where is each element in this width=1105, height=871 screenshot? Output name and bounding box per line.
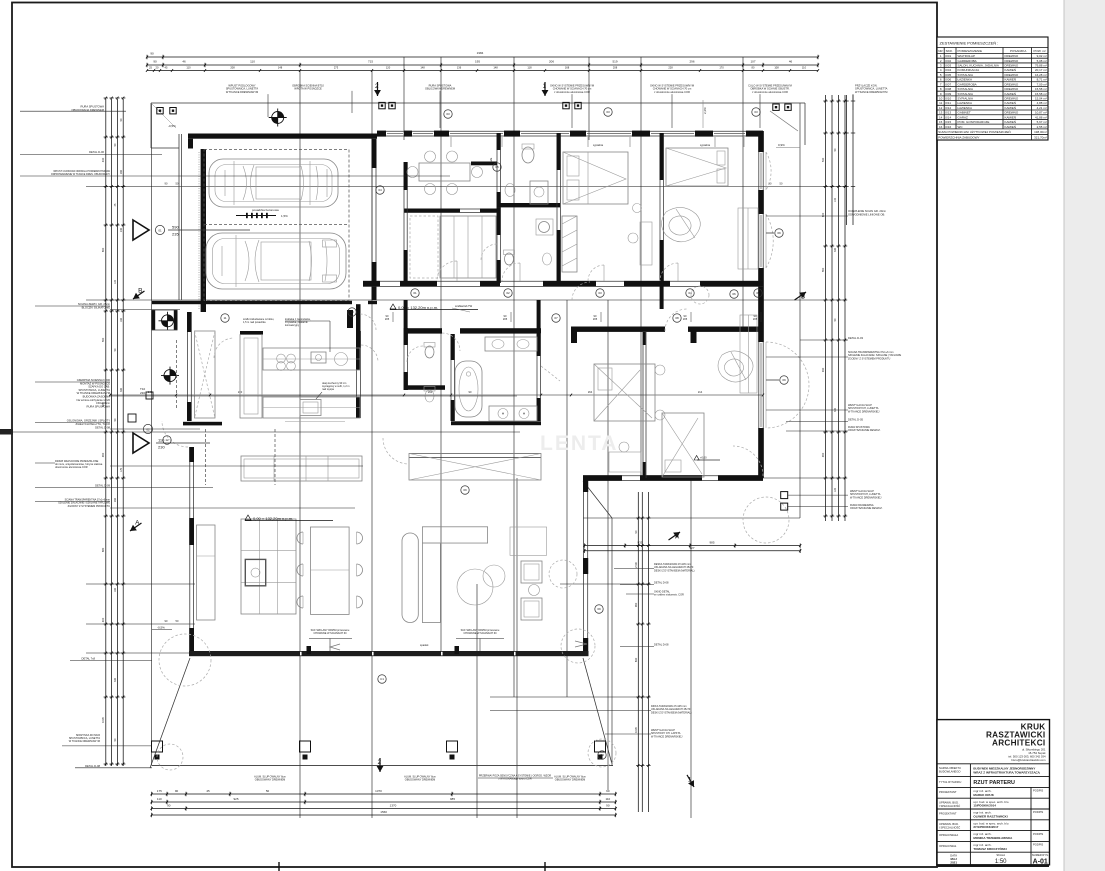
- svg-text:posadzka betonowa: posadzka betonowa: [252, 208, 279, 212]
- svg-text:SUMA POWIERZCHNI UŻYTKOWEJ POM: SUMA POWIERZCHNI UŻYTKOWEJ POMIESZCZEŃ: [938, 129, 1011, 134]
- svg-text:WROTA W POSADZCE: WROTA W POSADZCE: [294, 87, 322, 91]
- svg-text:41,88 m²: 41,88 m²: [1035, 115, 1047, 119]
- svg-text:9,02 m²: 9,02 m²: [1037, 54, 1047, 58]
- upper bathroom1 fixtures: [522, 147, 534, 163]
- svg-text:sypialnia: sypialnia: [700, 143, 711, 147]
- svg-text:0/02: 0/02: [945, 59, 951, 63]
- main bath east wall: [536, 334, 538, 421]
- svg-text:SYPIALNIA: SYPIALNIA: [958, 96, 974, 100]
- main bath tub: [455, 361, 482, 417]
- svg-text:170: 170: [719, 65, 724, 69]
- svg-text:GARAŻ: GARAŻ: [958, 114, 969, 119]
- section arrow 1 top: [542, 82, 549, 96]
- building walls: [151, 100, 805, 656]
- svg-text:DESKI Z DYSTANSEM (MATERIAL): DESKI Z DYSTANSEM (MATERIAL): [654, 569, 695, 572]
- svg-text:POWIERZCHNIA ZABUDOWY: POWIERZCHNIA ZABUDOWY: [938, 136, 979, 140]
- svg-text:45: 45: [206, 789, 210, 793]
- svg-text:4,88 m²: 4,88 m²: [1037, 101, 1047, 105]
- garage south wall: [152, 301, 352, 304]
- WC column toilets: [425, 346, 434, 358]
- svg-text:1370: 1370: [375, 789, 382, 793]
- svg-text:DETAL D-06: DETAL D-06: [89, 150, 104, 154]
- svg-text:8,71 m²: 8,71 m²: [1037, 78, 1047, 82]
- bath bottom wall: [497, 203, 560, 205]
- svg-text:15,58 m²: 15,58 m²: [1035, 92, 1047, 96]
- svg-text:2,2%: 2,2%: [703, 107, 707, 114]
- furniture: [150, 137, 809, 770]
- svg-text:927: 927: [689, 546, 694, 550]
- svg-text:ARCHITEKCI: ARCHITEKCI: [992, 739, 1046, 748]
- svg-text:04: 04: [378, 188, 382, 192]
- svg-text:108: 108: [774, 65, 779, 69]
- garage west wall: [178, 134, 180, 300]
- svg-text:POM. GOSPODARCZE: POM. GOSPODARCZE: [958, 120, 990, 124]
- svg-text:TOMASZ KROCZYŃSKI: TOMASZ KROCZYŃSKI: [973, 846, 1006, 851]
- svg-text:205: 205: [753, 317, 758, 321]
- extra dashed circles SE: [743, 497, 789, 543]
- svg-text:4,21 m²: 4,21 m²: [1037, 106, 1047, 110]
- svg-text:W TKANCE DREWNIANYM: W TKANCE DREWNIANYM: [855, 90, 887, 94]
- svg-text:A: A: [675, 534, 680, 541]
- top dimension chain line 3: [147, 70, 818, 72]
- svg-text:460: 460: [821, 452, 825, 457]
- svg-text:118: 118: [527, 65, 532, 69]
- svg-text:14: 14: [939, 115, 943, 119]
- svg-text:0/10: 0/10: [945, 96, 951, 100]
- svg-text:13: 13: [939, 111, 943, 115]
- svg-text:15/PDOKK/2014: 15/PDOKK/2014: [973, 804, 996, 808]
- wardrobe hatch bedroomA: [562, 216, 577, 272]
- svg-text:264: 264: [588, 390, 593, 394]
- svg-text:z obustronnie aluminiowa COR: z obustronnie aluminiowa COR: [554, 90, 590, 94]
- svg-text:296: 296: [689, 60, 694, 64]
- svg-text:+0,00: +0,00: [700, 455, 707, 459]
- svg-text:205: 205: [503, 317, 508, 321]
- frame cut mark left: [0, 429, 13, 435]
- dining/bath wall: [496, 133, 498, 283]
- svg-text:0/15: 0/15: [945, 120, 951, 124]
- svg-text:110: 110: [186, 65, 191, 69]
- svg-text:430: 430: [101, 157, 105, 162]
- svg-text:46: 46: [182, 60, 186, 64]
- svg-text:110: 110: [802, 65, 807, 69]
- svg-text:5,67 m²: 5,67 m²: [1037, 120, 1047, 124]
- svg-text:ŁAZIENKA: ŁAZIENKA: [958, 78, 973, 82]
- WC south wall: [404, 385, 445, 390]
- svg-text:GARDEROBA: GARDEROBA: [958, 59, 977, 63]
- svg-text:RURA SPUSTOWA: RURA SPUSTOWA: [81, 105, 105, 109]
- main bath west wall: [450, 334, 452, 421]
- svg-text:NAZWA OBIEKTU: NAZWA OBIEKTU: [939, 766, 961, 770]
- svg-text:-0,5%: -0,5%: [157, 626, 165, 630]
- entry closet: [195, 331, 216, 418]
- svg-text:DREWNO: DREWNO: [1005, 73, 1019, 77]
- svg-text:-0,5%: -0,5%: [168, 124, 176, 128]
- svg-text:03: 03: [606, 110, 610, 114]
- svg-text:300: 300: [834, 407, 837, 412]
- kitchen north wall: [240, 331, 263, 335]
- entry porch: [152, 310, 156, 330]
- svg-text:SALON, KUCHNIA, JADALNIA: SALON, KUCHNIA, JADALNIA: [958, 64, 999, 68]
- svg-text:B: B: [801, 294, 805, 301]
- main bath sinks bottom: [489, 406, 537, 421]
- dresser master bedroom: [740, 315, 757, 393]
- svg-text:OBUDOWANY DREWNEM: OBUDOWANY DREWNEM: [405, 779, 435, 782]
- wardrobe wall right: [409, 453, 541, 455]
- svg-text:120: 120: [834, 487, 837, 492]
- svg-text:110: 110: [605, 797, 610, 801]
- svg-text:90: 90: [153, 60, 157, 64]
- svg-text:01: 01: [413, 291, 417, 295]
- garage east wall: [371, 139, 373, 300]
- bedroom south wall: [583, 475, 763, 477]
- svg-text:06: 06: [732, 292, 736, 296]
- svg-text:02: 02: [146, 427, 150, 431]
- section arrow B right: [793, 289, 810, 305]
- armchair sketch SE bedroom: [718, 351, 753, 382]
- left vertical dimension chains: [105, 99, 107, 766]
- svg-text:ŁAZIENKA: ŁAZIENKA: [958, 101, 973, 105]
- svg-text:szafka/zab TW: szafka/zab TW: [455, 304, 473, 308]
- svg-text:273: 273: [334, 65, 339, 69]
- svg-text:15: 15: [939, 120, 943, 124]
- svg-text:KAMIEŃ: KAMIEŃ: [1005, 92, 1017, 96]
- svg-text:RURA SPUSTOWA: RURA SPUSTOWA: [87, 404, 111, 408]
- svg-text:WIATROŁAP: WIATROŁAP: [958, 54, 975, 58]
- svg-text:PODPIS: PODPIS: [1033, 843, 1043, 847]
- svg-text:175: 175: [120, 467, 123, 472]
- svg-text:spadek: spadek: [420, 643, 429, 647]
- svg-text:ZGODNY Z SYSTEMEM PRODUKTU: ZGODNY Z SYSTEMEM PRODUKTU: [68, 505, 111, 508]
- section triangle 1: [133, 220, 149, 240]
- corridor-to-bath connector walls: [404, 300, 408, 328]
- svg-text:SYPIALNIA: SYPIALNIA: [958, 92, 974, 96]
- slope marks: [236, 215, 276, 217]
- bed south-east: [662, 413, 704, 477]
- svg-text:05: 05: [495, 165, 499, 169]
- svg-text:2021: 2021: [950, 860, 957, 864]
- svg-text:ZGODNY Z SYSTEMEM PRODUKTU: ZGODNY Z SYSTEMEM PRODUKTU: [848, 357, 891, 360]
- svg-text:27/1/PDOKK/2017: 27/1/PDOKK/2017: [973, 825, 998, 829]
- svg-text:0/01: 0/01: [945, 54, 951, 58]
- main bath sinks top: [485, 337, 537, 351]
- section arrow A left: [126, 517, 144, 534]
- svg-text:205: 205: [683, 317, 688, 321]
- right exterior wall: [758, 131, 760, 478]
- upper bathroom2 fixtures: [505, 253, 514, 265]
- svg-text:DREWNO: DREWNO: [1005, 111, 1019, 115]
- svg-text:BUDOWLANEGO: BUDOWLANEGO: [939, 770, 961, 774]
- svg-text:C0: C0: [600, 753, 604, 757]
- svg-text:12: 12: [939, 106, 943, 110]
- svg-text:05: 05: [756, 291, 760, 295]
- svg-text:930: 930: [821, 367, 825, 372]
- title block: [937, 720, 1050, 866]
- svg-text:175: 175: [157, 789, 162, 793]
- svg-text:0/09: 0/09: [945, 92, 951, 96]
- svg-text:DREWNO: DREWNO: [1005, 87, 1019, 91]
- sofa right L: [422, 527, 487, 543]
- internal grid / reference lines: [0, 57, 846, 818]
- terrace outline: [150, 658, 190, 768]
- svg-text:0/05: 0/05: [945, 73, 951, 77]
- svg-text:90: 90: [167, 803, 171, 807]
- svg-text:KOMUNIKACJA: KOMUNIKACJA: [958, 68, 980, 72]
- svg-text:11: 11: [939, 101, 942, 105]
- svg-text:321,70m²: 321,70m²: [1034, 136, 1047, 140]
- svg-text:ODWODNIENIE LINIOWE OB.: ODWODNIENIE LINIOWE OB.: [848, 212, 885, 216]
- svg-text:DETAL D-08: DETAL D-08: [85, 764, 100, 768]
- section arrow A right: [667, 529, 684, 546]
- svg-text:46: 46: [789, 60, 793, 64]
- svg-text:B: B: [138, 287, 142, 294]
- kitchen east wall: [356, 331, 358, 418]
- svg-text:DESKI Z DYSTANSEM (MATERIAL): DESKI Z DYSTANSEM (MATERIAL): [651, 711, 692, 714]
- svg-text:09: 09: [597, 607, 601, 611]
- armchairs right: [521, 561, 542, 583]
- terrace columns: [152, 741, 163, 752]
- kitchen tall cabinets: [240, 335, 262, 418]
- svg-text:208: 208: [230, 65, 235, 69]
- svg-text:DREWNO: DREWNO: [1005, 54, 1019, 58]
- svg-text:03: 03: [754, 110, 758, 114]
- svg-text:CHOWANE W SCIANACH 60: CHOWANE W SCIANACH 60: [463, 632, 497, 635]
- svg-text:POW. m²: POW. m²: [1034, 49, 1046, 53]
- svg-text:12: 12: [165, 438, 169, 442]
- svg-text:2: 2: [378, 759, 382, 766]
- svg-text:KAMIEŃ: KAMIEŃ: [1005, 125, 1017, 129]
- section arrow 2 top: [374, 82, 381, 96]
- svg-text:280: 280: [120, 169, 123, 174]
- svg-text:SKR.: SKR.: [946, 49, 953, 53]
- svg-text:148: 148: [420, 65, 425, 69]
- svg-text:168: 168: [565, 65, 570, 69]
- svg-text:SYPIALNIA: SYPIALNIA: [958, 87, 974, 91]
- svg-text:530: 530: [821, 157, 825, 162]
- dimension chains: [101, 51, 855, 817]
- svg-text:195: 195: [475, 60, 480, 64]
- svg-text:POSADZKA: POSADZKA: [1010, 49, 1026, 53]
- svg-text:GABINET: GABINET: [958, 111, 971, 115]
- svg-text:330: 330: [834, 247, 837, 252]
- svg-text:DREWNO: DREWNO: [1005, 64, 1019, 68]
- svg-text:W TKANCE DREWNIANYM: W TKANCE DREWNIANYM: [69, 740, 100, 743]
- bottom dimension chain lines: [152, 793, 616, 795]
- svg-text:konwekcyjny: konwekcyjny: [285, 324, 300, 327]
- svg-text:140: 140: [834, 197, 837, 202]
- svg-text:1: 1: [543, 83, 547, 90]
- svg-text:11: 11: [223, 316, 226, 320]
- bedroom dimension chains: [584, 545, 800, 547]
- svg-text:985: 985: [709, 540, 714, 544]
- roof overhang outline: [151, 102, 805, 104]
- svg-text:690: 690: [101, 247, 105, 252]
- svg-text:sypialnia: sypialnia: [593, 143, 604, 147]
- svg-text:0/08: 0/08: [945, 87, 951, 91]
- middle vertical dimension chains: [637, 492, 639, 812]
- svg-text:09: 09: [463, 488, 467, 492]
- top dimension chain line 1: [147, 56, 818, 58]
- svg-text:235: 235: [172, 231, 179, 236]
- svg-text:136: 136: [457, 65, 462, 69]
- svg-text:PROJEKTANT: PROJEKTANT: [939, 811, 957, 815]
- square rug: [510, 527, 547, 555]
- svg-text:KAMIEŃ: KAMIEŃ: [1005, 120, 1017, 124]
- svg-text:W TKANCE DRENARSKIEJ: W TKANCE DRENARSKIEJ: [850, 496, 882, 499]
- right wall window arcs: [766, 152, 771, 190]
- bathroom north wall: [404, 328, 442, 333]
- svg-text:925: 925: [233, 797, 238, 801]
- svg-text:90: 90: [150, 52, 154, 56]
- right vertical dimension chains: [825, 95, 827, 521]
- section arrow B left: [129, 285, 147, 301]
- sofa modular left: [241, 519, 296, 614]
- svg-text:DREWNO: DREWNO: [1005, 82, 1019, 86]
- svg-text:79,88 m²: 79,88 m²: [1035, 64, 1047, 68]
- svg-text:ODCZYSZCZANIE DESZCZ.: ODCZYSZCZANIE DESZCZ.: [850, 507, 883, 510]
- svg-text:WC: WC: [958, 125, 964, 129]
- svg-text:DREWNO: DREWNO: [1005, 96, 1019, 100]
- svg-text:205: 205: [593, 317, 598, 321]
- svg-text:DETAL D-03: DETAL D-03: [848, 336, 863, 340]
- svg-text:07: 07: [554, 316, 558, 320]
- svg-text:198,00m²: 198,00m²: [1034, 130, 1047, 134]
- frame bottom extension under title block: [937, 865, 1049, 867]
- tree circles: [159, 634, 211, 686]
- window pocket stubs: [451, 137, 502, 147]
- svg-text:DETAL D-08: DETAL D-08: [95, 425, 110, 429]
- svg-text:C1: C1: [380, 677, 384, 681]
- svg-text:ze szklem niskoemis. COR: ze szklem niskoemis. COR: [654, 594, 684, 597]
- svg-text:RZUT PARTERU: RZUT PARTERU: [973, 780, 1015, 786]
- svg-text:SCIANA ZEWN. GR. 25cm: SCIANA ZEWN. GR. 25cm: [78, 302, 111, 306]
- top exterior wall with windows: [377, 130, 763, 132]
- svg-text:330: 330: [114, 677, 117, 682]
- bedroomA east wall: [659, 133, 661, 281]
- svg-text:1035: 1035: [101, 717, 105, 723]
- svg-text:OBUDOWANY DREWNEM: OBUDOWANY DREWNEM: [255, 779, 285, 782]
- leader annotations: [20, 84, 902, 782]
- svg-text:GARDEROBA: GARDEROBA: [958, 82, 977, 86]
- svg-text:04: 04: [688, 291, 692, 295]
- wardrobe row right: [409, 454, 541, 481]
- living west wall: [189, 447, 191, 651]
- svg-text:KAMIEŃ: KAMIEŃ: [1005, 78, 1017, 82]
- svg-text:OBUDOWANY DREWNEM: OBUDOWANY DREWNEM: [555, 779, 585, 782]
- svg-text:OBLICOWKA DREWNEM: OBLICOWKA DREWNEM: [425, 87, 455, 91]
- svg-text:400: 400: [101, 617, 105, 622]
- svg-text:nad wyspa: nad wyspa: [322, 388, 335, 391]
- svg-text:DETAL D-08: DETAL D-08: [654, 643, 669, 647]
- svg-text:960: 960: [634, 602, 638, 607]
- chaise lounge: [402, 533, 418, 623]
- door arcs: [437, 261, 457, 281]
- svg-text:260: 260: [114, 497, 117, 502]
- section triangle 2: [133, 433, 149, 453]
- SE corner diagonal: [583, 481, 612, 518]
- svg-text:1370: 1370: [390, 803, 397, 807]
- svg-text:2730: 2730: [634, 562, 638, 568]
- svg-text:KAMIEŃ: KAMIEŃ: [1005, 106, 1017, 110]
- svg-text:LENTA: LENTA: [540, 432, 618, 455]
- svg-text:230: 230: [140, 391, 145, 395]
- svg-text:1:50: 1:50: [995, 859, 1007, 865]
- svg-text:PODPIS: PODPIS: [1033, 810, 1043, 814]
- main bath south wall: [451, 421, 541, 425]
- svg-text:10: 10: [350, 310, 354, 314]
- svg-text:20,17 m²: 20,17 m²: [1035, 68, 1047, 72]
- svg-text:DREWNO: DREWNO: [1005, 59, 1019, 63]
- bottom border fold ticks: [278, 862, 280, 871]
- section arrow 2 bottom: [377, 758, 384, 772]
- svg-text:KAMIEŃ: KAMIEŃ: [1005, 115, 1017, 119]
- svg-text:10,87 m²: 10,87 m²: [1035, 111, 1047, 115]
- survey point crosshairs: [272, 112, 284, 124]
- svg-text:TYTUŁ RYSUNKU: TYTUŁ RYSUNKU: [939, 780, 961, 784]
- svg-text:110: 110: [250, 60, 255, 64]
- wall tie squares: [157, 108, 163, 114]
- svg-text:590: 590: [101, 337, 105, 342]
- svg-text:0/16: 0/16: [945, 125, 951, 129]
- svg-text:300: 300: [120, 387, 123, 392]
- svg-text:09: 09: [777, 231, 781, 235]
- poufs: [457, 569, 493, 605]
- svg-text:PROJEKTANT: PROJEKTANT: [939, 790, 957, 794]
- bed bedroomA: [563, 152, 628, 204]
- svg-text:148: 148: [493, 65, 498, 69]
- svg-text:z obustronnie aluminiowa COR: z obustronnie aluminiowa COR: [752, 90, 788, 94]
- svg-text:02: 02: [506, 291, 510, 295]
- svg-text:0,9%: 0,9%: [778, 143, 785, 147]
- svg-text:120: 120: [386, 65, 391, 69]
- gray margin strip right of sheet edge: [1064, 0, 1105, 871]
- svg-text:W TKANCE DRENARSKIEJ: W TKANCE DRENARSKIEJ: [651, 735, 683, 738]
- svg-text:107: 107: [750, 60, 755, 64]
- symbols and markers: [0, 82, 810, 871]
- south glass facade: [189, 651, 589, 656]
- svg-text:1,5%: 1,5%: [281, 214, 288, 218]
- svg-text:90: 90: [175, 789, 179, 793]
- svg-text:03: 03: [598, 291, 602, 295]
- svg-text:519: 519: [612, 60, 617, 64]
- master bed: [594, 364, 655, 421]
- car 1: [209, 159, 338, 207]
- svg-text:90: 90: [606, 803, 610, 807]
- svg-text:15,58 m²: 15,58 m²: [1035, 87, 1047, 91]
- svg-text:MONIKA TRZEBIDŁAWSKA: MONIKA TRZEBIDŁAWSKA: [973, 836, 1013, 840]
- svg-text:15,04 m²: 15,04 m²: [1035, 96, 1047, 100]
- svg-text:szafa: szafa: [489, 157, 493, 164]
- svg-text:01: 01: [158, 228, 162, 232]
- svg-text:A-01: A-01: [1033, 859, 1048, 866]
- living east glass wall: [583, 478, 585, 653]
- svg-text:OCIEPLENIE SCIAN GR. 20cm: OCIEPLENIE SCIAN GR. 20cm: [848, 209, 887, 213]
- svg-text:MAREK KRUK: MAREK KRUK: [973, 793, 994, 797]
- svg-text:SYPIALNIA: SYPIALNIA: [958, 73, 974, 77]
- garage parking dashed outline: [204, 150, 349, 301]
- svg-text:160: 160: [120, 317, 123, 322]
- svg-text:214: 214: [698, 390, 703, 394]
- svg-text:208: 208: [613, 65, 618, 69]
- WC column walls: [403, 328, 405, 390]
- svg-text:03: 03: [446, 112, 450, 116]
- svg-text:1035: 1035: [634, 727, 638, 733]
- dining table upper: [419, 163, 470, 181]
- svg-text:0/12: 0/12: [945, 106, 951, 110]
- svg-text:NUMER RYS.: NUMER RYS.: [1032, 853, 1049, 857]
- svg-text:50: 50: [266, 789, 270, 793]
- svg-text:0/14: 0/14: [945, 115, 951, 119]
